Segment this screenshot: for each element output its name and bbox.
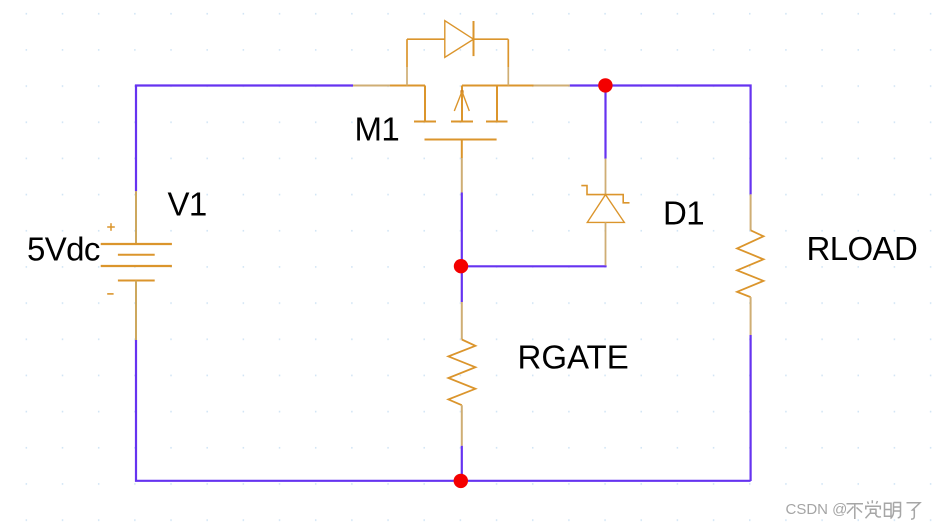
svg-text:M1: M1: [355, 111, 400, 148]
wire RGATE to bottom rail: [461, 446, 463, 481]
zener diode D1: [581, 159, 629, 266]
junction node at M1 source / RLOAD / D1: [598, 78, 612, 92]
junction node at bottom rail / RGATE: [454, 474, 468, 488]
wire top junction down to D1: [604, 86, 606, 159]
svg-text:RLOAD: RLOAD: [807, 230, 918, 267]
resistor RLOAD: [737, 194, 763, 335]
wire M1 source to top junction and down to RLOAD: [570, 86, 751, 195]
wire V1 minus to bottom rail: [136, 340, 751, 481]
resistor RGATE: [448, 302, 475, 446]
body diode of M1: [407, 21, 508, 86]
voltage source V1: [101, 191, 172, 340]
mosfet M1 (PMOS with body diode): [353, 86, 570, 193]
watermark: [786, 500, 921, 519]
svg-text:RGATE: RGATE: [518, 339, 629, 376]
svg-text:CSDN @: CSDN @: [786, 501, 848, 518]
svg-text:5Vdc: 5Vdc: [27, 230, 100, 267]
svg-text:V1: V1: [168, 186, 207, 223]
wire M1 gate down to node: [461, 193, 463, 267]
wire D1 anode to gate node: [462, 265, 607, 267]
wire top rail from V1 to M1 drain: [136, 86, 353, 192]
wire RLOAD bottom to bottom rail: [749, 335, 751, 481]
wire gate node down to RGATE: [461, 266, 463, 302]
svg-text:D1: D1: [663, 194, 704, 231]
junction node at gate / D1 anode / RGATE: [454, 259, 468, 273]
